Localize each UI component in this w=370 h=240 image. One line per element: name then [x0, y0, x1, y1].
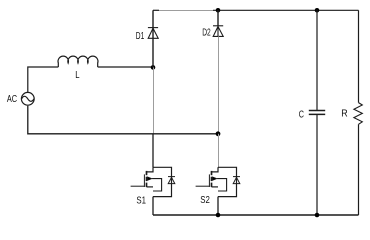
diode D1 [148, 28, 158, 39]
svg-text:S2: S2 [200, 195, 210, 206]
node B junction dot (D2 top) [216, 8, 221, 13]
node E junction dot (C top) [315, 8, 320, 13]
wire inductor to node A [98, 66, 153, 68]
wire node A up to D1 [152, 10, 154, 67]
node A junction dot [151, 65, 156, 70]
transistor S1 (MOSFET with body diode) [131, 167, 175, 196]
resistor R [354, 10, 362, 215]
svg-text:S1: S1 [136, 196, 146, 207]
svg-text:L: L [75, 70, 80, 81]
wire D2 anode down to node C (gray) [218, 36, 220, 133]
node D junction dot (S2 at bottom rail) [216, 213, 221, 218]
capacitor C [309, 10, 325, 215]
wire AC bottom to mid rail [28, 106, 218, 134]
top rail wire [153, 9, 159, 11]
AC source V1 [21, 92, 34, 105]
svg-text:R: R [341, 108, 347, 119]
wire mid rail down to S1 drain [152, 134, 154, 168]
svg-text:D1: D1 [136, 31, 145, 42]
bottom rail wire [153, 214, 359, 216]
wire node A down to mid rail (gray) [153, 67, 155, 133]
wire S1 source to bottom rail [152, 197, 154, 215]
inductor L [58, 56, 98, 67]
wire AC top to inductor [28, 67, 59, 92]
diode D2 [213, 26, 223, 37]
node C junction dot (mid rail at D2/S2) [216, 131, 221, 136]
svg-text:C: C [299, 110, 304, 121]
svg-text:D2: D2 [202, 27, 211, 38]
wire S2 source to bottom rail [217, 197, 219, 215]
node F junction dot (C bottom) [315, 213, 320, 218]
transistor S2 (MOSFET with body diode) [196, 167, 240, 196]
wire D2 cathode up to top rail [217, 10, 219, 26]
wire node C down to S2 drain (gray) [218, 134, 220, 168]
svg-text:AC: AC [7, 94, 17, 105]
